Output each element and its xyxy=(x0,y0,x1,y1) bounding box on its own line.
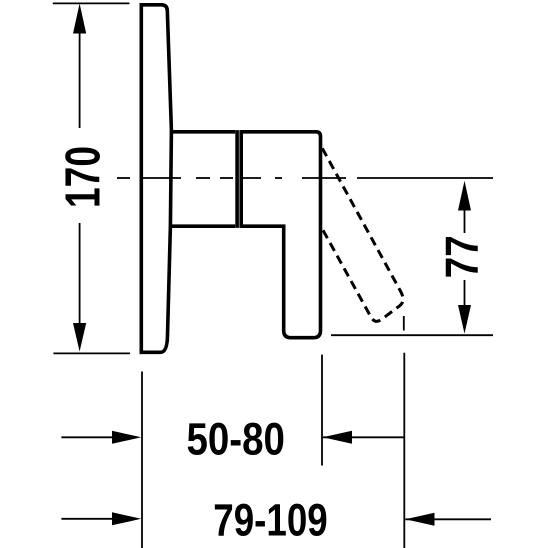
dimension 170 extension tick bottom xyxy=(53,352,130,354)
dimension 77 arrow up xyxy=(458,181,471,211)
svg-text:50-80: 50-80 xyxy=(186,413,285,464)
svg-text:170: 170 xyxy=(56,146,111,208)
dimension 50-80 arrow left-pointing xyxy=(323,431,352,444)
dimension 79-109 line left xyxy=(61,518,120,520)
dimension 77 line xyxy=(464,208,466,308)
dimension 79-109 line right xyxy=(405,518,491,520)
valve body (cartridge housing) xyxy=(170,130,237,228)
dimension 77 arrow down xyxy=(458,305,471,334)
dimension 170 arrow down xyxy=(73,323,86,352)
svg-text:77: 77 xyxy=(436,235,488,278)
77 top reference line xyxy=(357,177,493,179)
dimension 79-109 arrow right-pointing xyxy=(112,512,141,525)
77 bottom reference line xyxy=(331,334,493,336)
lever handle (open position, dashed) xyxy=(322,148,403,321)
lever handle (closed position) xyxy=(241,130,320,338)
50-80 right extension line xyxy=(321,355,323,466)
wall plate (escutcheon, side view) xyxy=(141,5,171,353)
svg-text:79-109: 79-109 xyxy=(213,495,328,546)
centerline (dash-dot axis) xyxy=(117,177,346,179)
dimension 50-80 line left xyxy=(61,436,120,438)
dimension 170 line xyxy=(79,30,81,325)
dimension 50-80 arrow right-pointing xyxy=(112,431,141,444)
dimension 79-109 arrow left-pointing xyxy=(405,513,434,526)
50-80 left extension line (wall plane, shared) xyxy=(141,372,143,548)
79-109 right extension line xyxy=(403,316,406,548)
dimension 170 arrow up xyxy=(73,4,86,34)
dimension 50-80 line right xyxy=(323,436,404,438)
dimension 170 extension tick top xyxy=(53,2,130,4)
